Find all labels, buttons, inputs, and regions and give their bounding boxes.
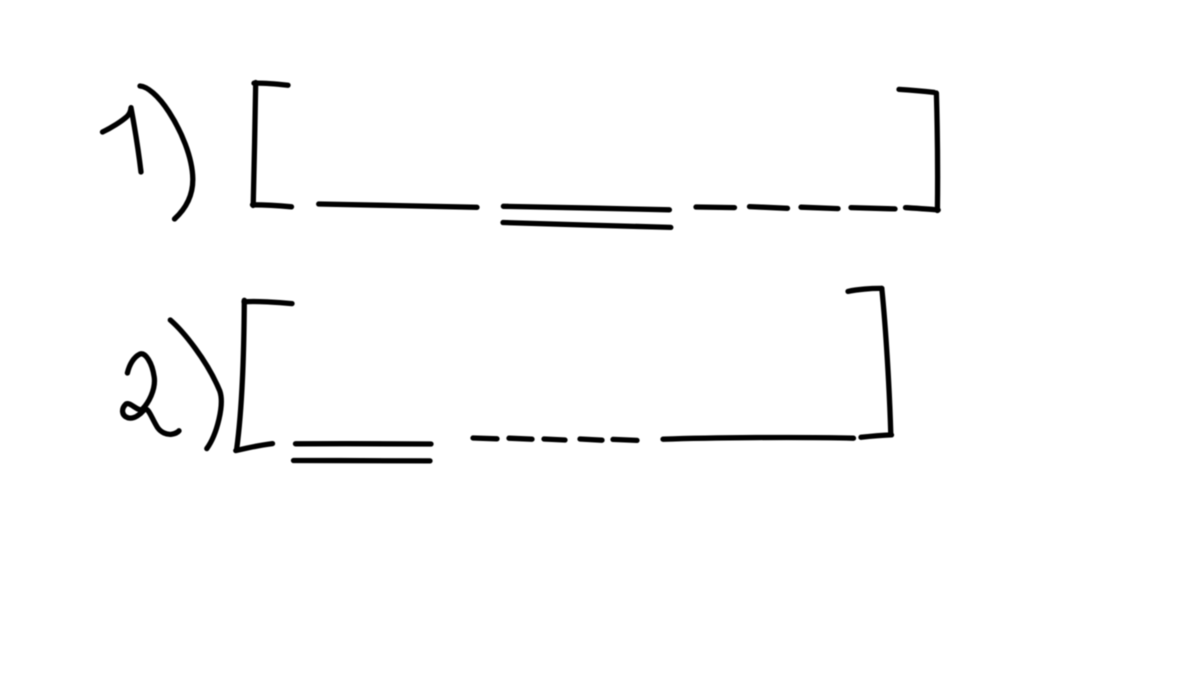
solid line row2 (663, 437, 854, 439)
bracket right row1 top horizontal (899, 89, 934, 92)
bracket right row1 bottom horizontal (906, 208, 939, 210)
bracket right row2 vertical (882, 288, 891, 434)
label "2)" closing parenthesis (170, 320, 221, 449)
bracket right row2 bottom horizontal (861, 435, 892, 437)
bracket right row2 top horizontal (848, 288, 882, 291)
dashed line row1 dash 1 (696, 204, 735, 210)
bracket left row2 top horizontal (244, 302, 292, 304)
solid line row1 (319, 204, 477, 207)
dashed line row2 dash 5 (613, 439, 637, 440)
bracket left row2 vertical (237, 300, 245, 449)
double line row1 bottom stroke (503, 223, 671, 228)
dashed line row2 dash 1 (473, 435, 497, 441)
label "1)" handwritten digit 1 (103, 108, 142, 172)
dashed line row2 dash 2 (509, 438, 532, 439)
double line row1 top stroke (503, 206, 669, 210)
dashed line row2 dash 3 (544, 439, 565, 440)
bracket left row1 vertical (253, 83, 256, 206)
bracket left row1 top horizontal (254, 83, 288, 85)
double line row2 bottom stroke (294, 458, 431, 464)
dashed line row2 dash 4 (580, 439, 602, 440)
dashed line row1 dash 2 (750, 207, 788, 209)
double line row2 top stroke (296, 441, 432, 447)
bracket left row1 bottom horizontal (253, 205, 292, 207)
dashed line row1 dash 4 (851, 208, 895, 209)
label "2)" handwritten digit 2 (123, 354, 179, 434)
label "1)" closing parenthesis (140, 86, 193, 219)
bracket right row1 vertical (936, 93, 937, 211)
bracket left row2 bottom horizontal (236, 444, 273, 451)
dashed line row1 dash 3 (801, 207, 838, 208)
